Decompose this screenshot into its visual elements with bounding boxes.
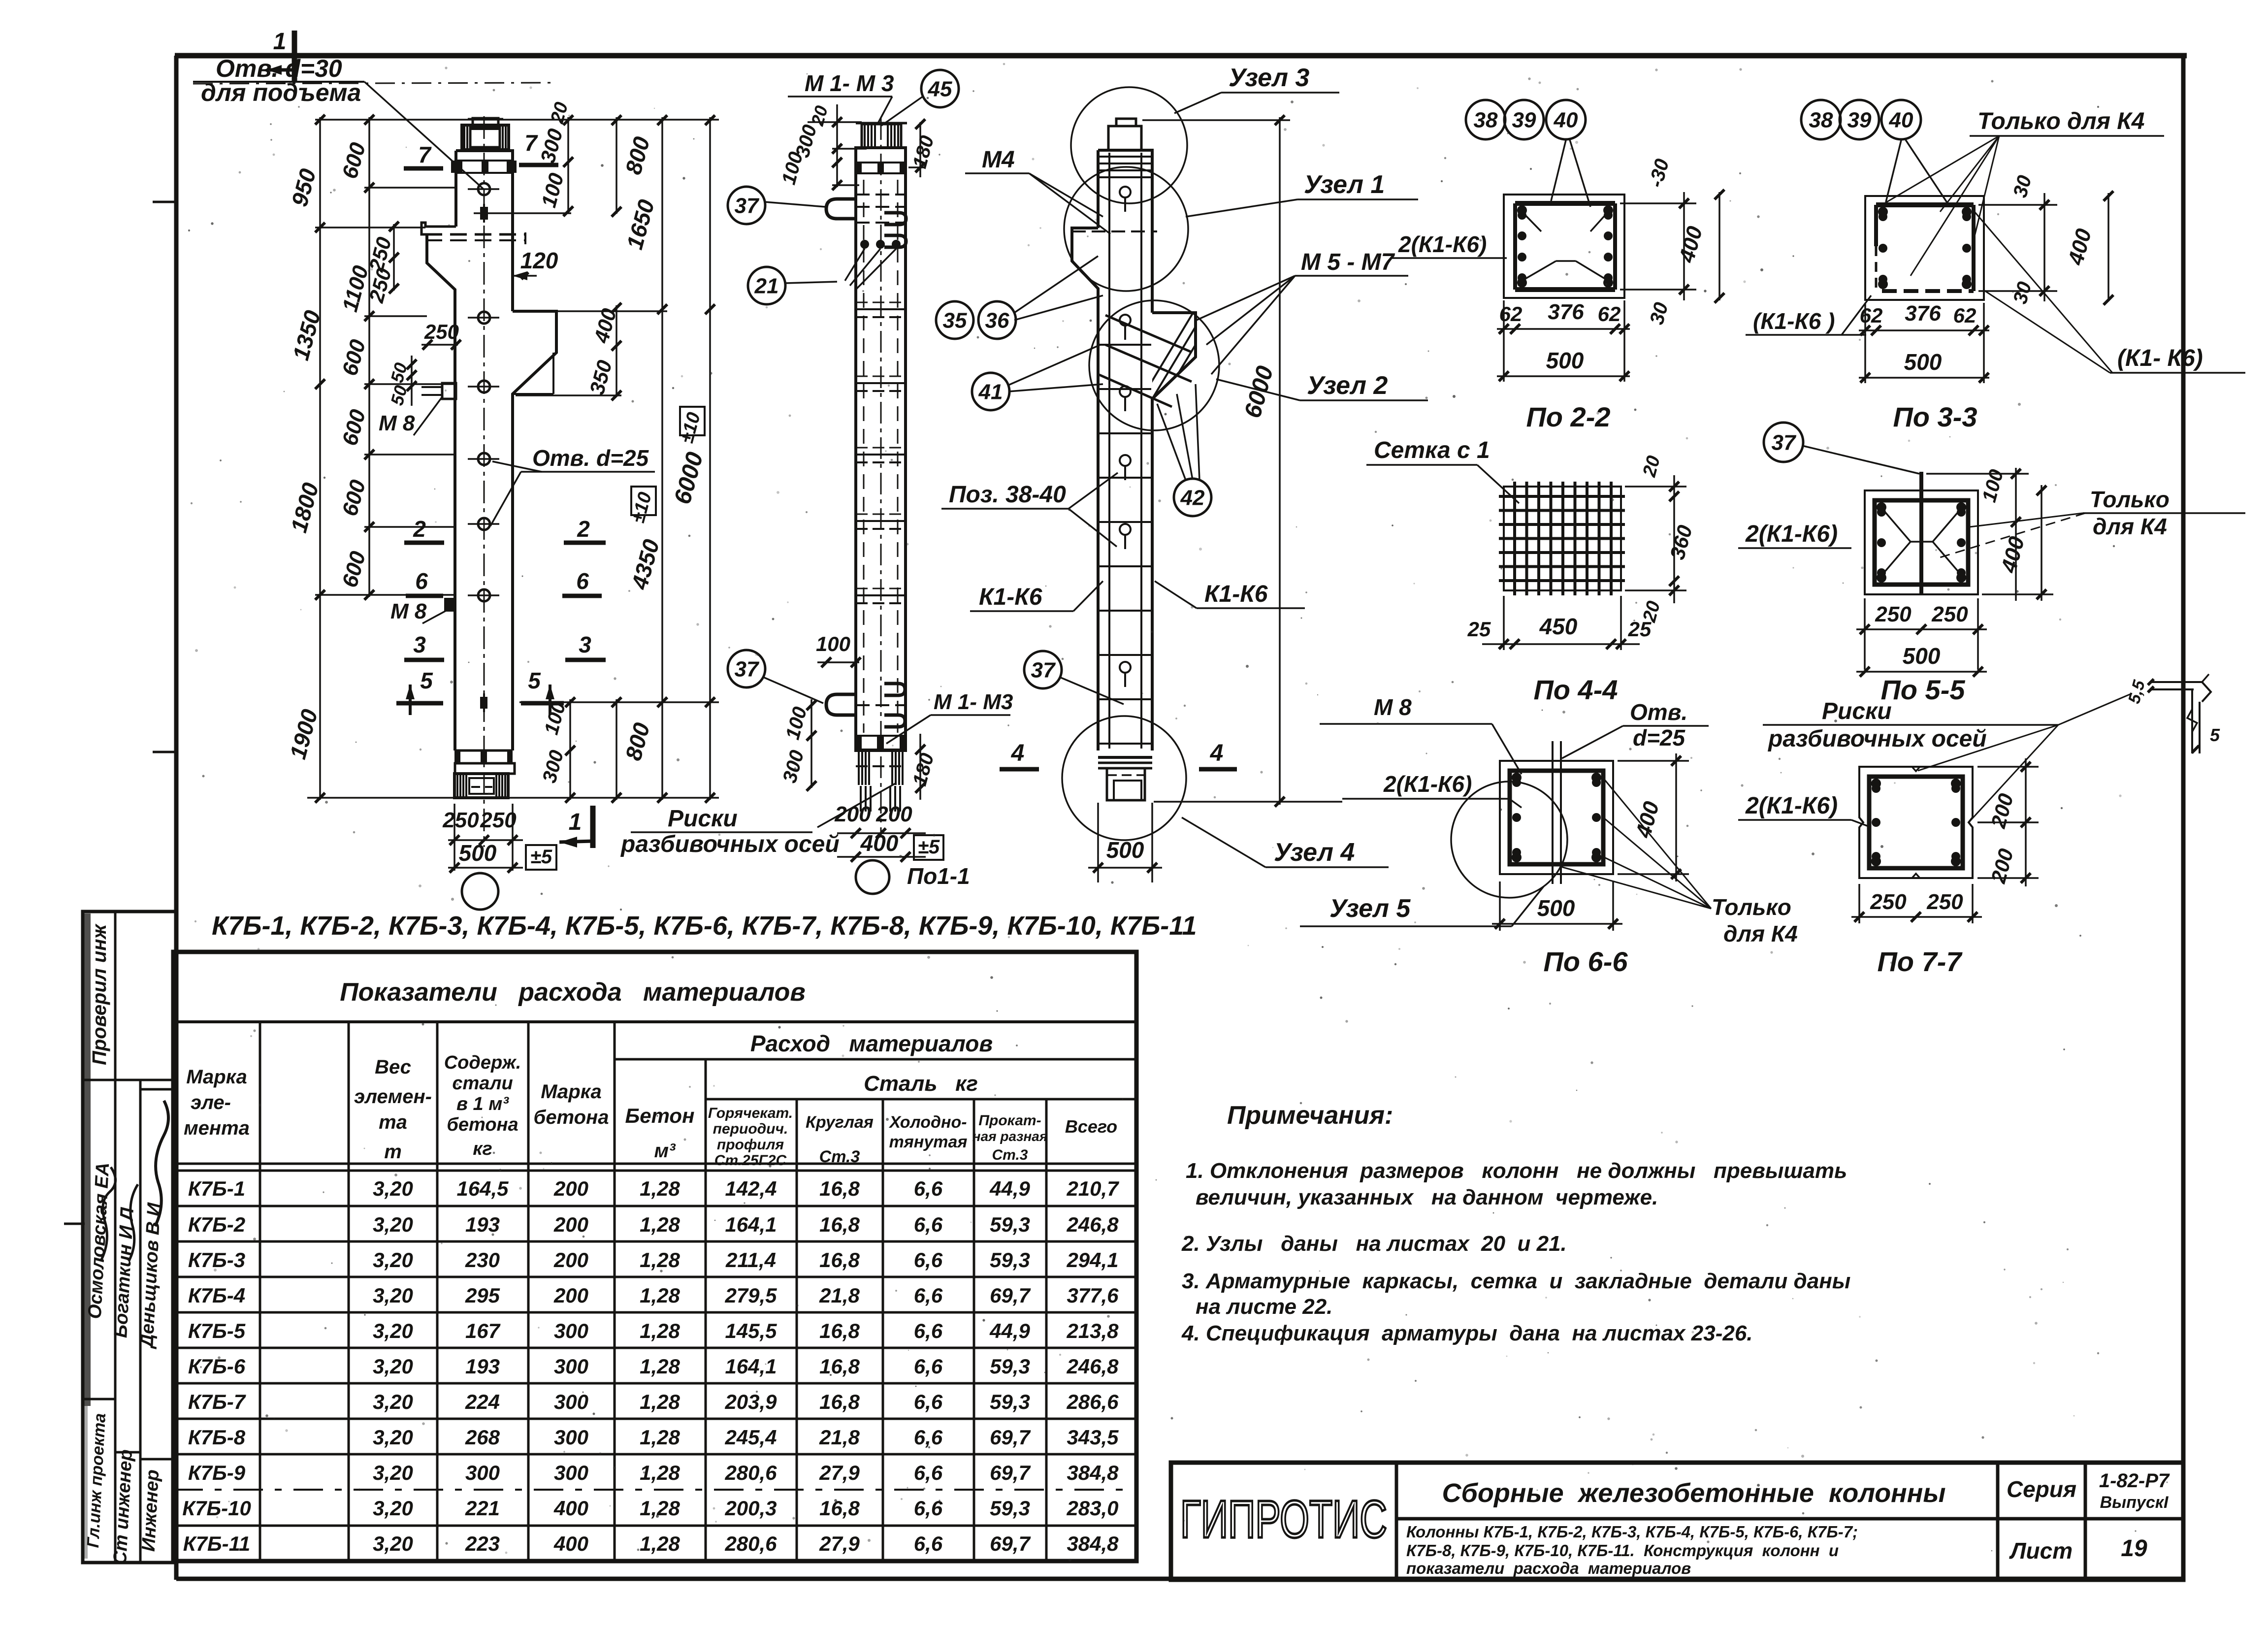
column view 1 top lifting-hole label [193,55,551,189]
column 1 right dim chains [516,100,715,803]
column 1 section marks left [396,516,444,715]
Po 4-4 dims [1467,454,1697,705]
Po 5-5 circled 37 [1764,423,1803,462]
column 3 outline [1072,119,1273,800]
svg-text:145,5: 145,5 [725,1319,777,1342]
svg-text:Серия: Серия [2007,1476,2076,1502]
svg-text:М 1- М 3: М 1- М 3 [805,70,894,96]
svg-text:1,28: 1,28 [640,1461,680,1484]
svg-text:500: 500 [1106,837,1144,863]
svg-text:1,28: 1,28 [640,1319,680,1342]
circled 37 (col2 top) [728,187,765,224]
circled 37 (col2 bottom) [728,650,765,687]
svg-text:250: 250 [1875,602,1912,626]
svg-text:167: 167 [465,1319,501,1342]
svg-text:250: 250 [1926,890,1963,914]
svg-text:300: 300 [554,1355,588,1378]
svg-text:44,9: 44,9 [989,1319,1030,1342]
svg-text:2. Узлы даны на листах 20: 2. Узлы даны на листах 20 и 21. [1181,1232,1567,1256]
svg-text:27,9: 27,9 [819,1532,860,1555]
svg-text:Колонны К7Б-1, К7Б-2, К7Б-3, К: Колонны К7Б-1, К7Б-2, К7Б-3, К7Б-4, К7Б-… [1406,1523,1858,1541]
svg-text:300: 300 [554,1319,588,1342]
svg-text:21,8: 21,8 [819,1426,860,1449]
svg-text:69,7: 69,7 [990,1532,1031,1555]
svg-text:37: 37 [735,657,760,681]
svg-text:36: 36 [985,308,1009,332]
svg-text:4: 4 [1011,740,1025,766]
svg-text:К1-К6: К1-К6 [1204,581,1268,607]
svg-text:6,6: 6,6 [914,1213,943,1236]
signature sidebar box [83,912,176,1563]
Po 5-5 labels dims [1738,467,2245,705]
section mark 1 (top) [267,29,294,83]
svg-text:200,3: 200,3 [724,1497,777,1520]
svg-text:250: 250 [480,808,517,832]
svg-text:5: 5 [2210,725,2220,745]
svg-text:500: 500 [1903,643,1941,669]
svg-text:38: 38 [1809,108,1833,132]
svg-text:К7Б-8, К7Б-9, К7Б-10, К7Б-11.: К7Б-8, К7Б-9, К7Б-10, К7Б-11. Конструкци… [1406,1541,1839,1560]
svg-text:3,20: 3,20 [373,1284,413,1307]
svg-text:39: 39 [1512,108,1536,132]
section Po 2-2 [1504,195,1624,298]
svg-text:59,3: 59,3 [990,1497,1030,1520]
svg-text:Отв. d=25: Отв. d=25 [532,445,649,471]
table header grid [173,1022,1136,1561]
column 2 outline [826,118,907,837]
svg-text:К7Б-3: К7Б-3 [188,1248,245,1272]
svg-text:283,0: 283,0 [1066,1497,1118,1520]
svg-text:разбивочных осей: разбивочных осей [1767,726,1987,752]
section Po 4-4 mesh [1499,482,1625,595]
svg-text:1,28: 1,28 [640,1177,680,1200]
svg-text:К7Б-8: К7Б-8 [188,1426,246,1449]
svg-text:500: 500 [459,840,497,866]
column 1 extension lines [307,120,719,798]
svg-text:Показатели расхода материа: Показатели расхода материалов [340,978,806,1007]
svg-text:59,3: 59,3 [990,1213,1030,1236]
svg-text:Сталь кг: Сталь кг [864,1072,978,1096]
svg-text:376: 376 [1905,301,1941,326]
svg-text:280,6: 280,6 [724,1532,777,1555]
svg-text:профиля: профиля [717,1137,784,1153]
svg-text:3. Арматурные каркасы, сетка: 3. Арматурные каркасы, сетка и закладные… [1182,1269,1850,1293]
section Po 5-5 [1865,472,1978,594]
svg-text:3,20: 3,20 [373,1355,413,1378]
svg-text:величин, указанных на данном: величин, указанных на данном чертеже. [1196,1185,1658,1209]
svg-text:6,6: 6,6 [914,1355,943,1378]
column 1 outline [421,116,556,847]
svg-text:62: 62 [1598,302,1621,326]
svg-text:203,9: 203,9 [724,1390,777,1413]
title block [1171,1463,2183,1580]
svg-text:6,6: 6,6 [914,1426,943,1449]
svg-text:d=25: d=25 [1633,725,1686,750]
svg-text:К7Б-11: К7Б-11 [183,1532,251,1555]
svg-text:К7Б-7: К7Б-7 [188,1390,246,1413]
svg-text:3,20: 3,20 [373,1213,413,1236]
svg-text:295: 295 [465,1284,500,1307]
svg-text:1. Отклонения размеров коло: 1. Отклонения размеров колонн не должны … [1186,1159,1847,1183]
svg-text:Проверил инж: Проверил инж [89,923,110,1065]
svg-text:По 5-5: По 5-5 [1881,674,1966,705]
circled 45 [921,70,959,107]
svg-text:280,6: 280,6 [724,1461,777,1484]
col3 6000 dim [1142,115,1342,807]
section 4 marks [1000,740,1237,769]
svg-text:213,8: 213,8 [1066,1319,1119,1342]
svg-text:По 4-4: По 4-4 [1534,674,1618,705]
svg-text:Только: Только [1712,894,1791,920]
svg-text:По 7-7: По 7-7 [1878,946,1963,977]
svg-text:±5: ±5 [918,836,940,858]
svg-text:19: 19 [2121,1535,2147,1562]
svg-text:По1-1: По1-1 [907,863,970,889]
svg-text:К7Б-2: К7Б-2 [188,1213,245,1236]
svg-text:Лист: Лист [2009,1538,2073,1564]
svg-text:223: 223 [465,1532,500,1555]
svg-text:Ст.3: Ст.3 [992,1147,1028,1163]
svg-text:7: 7 [418,142,432,167]
svg-text:384,8: 384,8 [1067,1461,1119,1484]
svg-text:на листе 22.: на листе 22. [1196,1295,1332,1319]
svg-text:193: 193 [465,1213,500,1236]
notes primechaniya [1181,1101,1850,1345]
svg-text:3,20: 3,20 [373,1319,413,1342]
svg-text:6,6: 6,6 [914,1177,943,1200]
svg-text:для К4: для К4 [2093,514,2167,539]
svg-text:Сборные железобетонные колон: Сборные железобетонные колонны [1442,1478,1945,1508]
svg-text:343,5: 343,5 [1067,1426,1119,1449]
svg-text:300: 300 [554,1461,588,1484]
Poz 38-40 label [941,473,1118,547]
svg-text:40: 40 [1554,108,1578,132]
svg-text:кг: кг [473,1139,492,1159]
svg-text:41: 41 [978,380,1003,404]
svg-text:384,8: 384,8 [1067,1532,1119,1555]
svg-text:400: 400 [860,830,899,856]
svg-text:3,20: 3,20 [373,1390,413,1413]
svg-text:По 3-3: По 3-3 [1893,401,1977,432]
svg-text:тянутая: тянутая [889,1133,968,1151]
svg-text:62: 62 [1499,302,1523,326]
svg-text:450: 450 [1539,614,1578,639]
svg-text:27,9: 27,9 [819,1461,860,1484]
section Po 7-7 [1859,767,1973,878]
svg-text:Вес: Вес [375,1056,411,1078]
svg-text:286,6: 286,6 [1066,1390,1119,1413]
Po 3-3 circled 38 39 40 [1801,100,1841,139]
svg-text:1,28: 1,28 [640,1248,680,1272]
Po 3-3 tolko dlya K4 [1879,108,2164,276]
svg-text:35: 35 [943,308,967,332]
svg-text:279,5: 279,5 [724,1284,777,1307]
svg-text:в 1 м³: в 1 м³ [456,1094,509,1114]
section Po 3-3 [1865,196,1984,300]
svg-text:2(К1-К6): 2(К1-К6) [1383,771,1472,797]
svg-text:500: 500 [1537,895,1575,921]
Po1-1 circle below col2 [856,860,970,894]
svg-text:59,3: 59,3 [990,1390,1030,1413]
svg-text:показатели расхода материало: показатели расхода материалов [1406,1559,1691,1577]
svg-text:246,8: 246,8 [1066,1355,1119,1378]
svg-text:Только для К4: Только для К4 [1977,108,2145,134]
svg-text:ная разная: ная разная [972,1129,1048,1144]
svg-text:250: 250 [1870,890,1907,914]
svg-text:59,3: 59,3 [990,1355,1030,1378]
svg-text:500: 500 [1546,348,1584,373]
svg-text:4. Спецификация арматуры дан: 4. Спецификация арматуры дана на листах … [1181,1321,1753,1345]
table data rows [173,1177,1136,1555]
svg-text:1,28: 1,28 [640,1532,680,1555]
svg-text:К1-К6: К1-К6 [979,584,1042,610]
svg-text:210,7: 210,7 [1066,1177,1119,1200]
svg-text:120: 120 [520,248,558,273]
fold marks [64,202,178,1224]
svg-text:6,6: 6,6 [914,1319,943,1342]
svg-text:1,28: 1,28 [640,1355,680,1378]
svg-text:эле-: эле- [191,1092,231,1113]
svg-text:5: 5 [420,668,433,693]
svg-text:стали: стали [452,1073,513,1094]
svg-text:224: 224 [465,1390,500,1413]
svg-text:193: 193 [465,1355,500,1378]
svg-text:±5: ±5 [530,846,552,868]
svg-text:300: 300 [465,1461,500,1484]
svg-text:300: 300 [554,1390,588,1413]
plus-minus 10 boxes [628,407,705,525]
col2 top dims 20/300/100 + 180 [778,103,939,190]
Po 2-2 circled 38 39 40 [1466,100,1505,139]
svg-text:100: 100 [816,632,850,655]
Otv d=25 label [490,445,655,526]
svg-text:1: 1 [273,29,287,55]
M1-M3 label bottom [817,690,1013,827]
svg-text:К7Б-4: К7Б-4 [188,1284,245,1307]
svg-text:62: 62 [1953,304,1976,327]
svg-text:Узел 4: Узел 4 [1274,838,1355,867]
svg-text:500: 500 [1904,349,1942,375]
sidebar rotated texts [84,923,165,1565]
svg-text:т: т [384,1141,402,1163]
svg-text:16,8: 16,8 [819,1213,860,1236]
svg-text:6: 6 [415,568,428,594]
svg-text:6,6: 6,6 [914,1248,943,1272]
M4 label [965,147,1110,234]
svg-text:37: 37 [1031,658,1056,682]
svg-text:4: 4 [1210,740,1224,766]
svg-text:3,20: 3,20 [373,1177,413,1200]
svg-text:300: 300 [554,1426,588,1449]
svg-text:для К4: для К4 [1723,921,1798,946]
svg-text:(К1- К6): (К1- К6) [2117,345,2203,371]
circled 42 [1174,479,1211,516]
svg-text:Только: Только [2090,487,2170,512]
svg-text:По 6-6: По 6-6 [1544,946,1628,977]
svg-text:К7Б-10: К7Б-10 [182,1497,251,1520]
svg-text:16,8: 16,8 [819,1390,860,1413]
svg-text:3: 3 [413,632,426,657]
svg-text:250: 250 [442,808,479,832]
uzel callout circles [1062,87,1219,840]
svg-text:200: 200 [553,1177,588,1200]
svg-text:6,6: 6,6 [914,1461,943,1484]
svg-text:Ст.25Г2С: Ст.25Г2С [714,1152,787,1169]
svg-text:62: 62 [1860,304,1883,327]
svg-text:бетона: бетона [534,1107,609,1128]
svg-text:Бетон: Бетон [625,1104,695,1127]
column view 2 label M1-M3 top [788,70,894,124]
svg-text:М 8: М 8 [379,411,415,435]
svg-text:ГИПРОТИС: ГИПРОТИС [1180,1489,1387,1549]
svg-text:Расход материалов: Расход материалов [750,1031,993,1056]
svg-text:44,9: 44,9 [989,1177,1030,1200]
svg-text:37: 37 [735,194,760,218]
svg-text:Всего: Всего [1065,1116,1117,1137]
svg-text:3,20: 3,20 [373,1426,413,1449]
svg-text:К7Б-9: К7Б-9 [188,1461,246,1484]
svg-text:Прокат-: Прокат- [978,1112,1041,1129]
svg-text:142,4: 142,4 [725,1177,777,1200]
svg-text:К7Б-5: К7Б-5 [188,1319,246,1342]
Po 7-7 labels dims [1738,758,2039,977]
svg-text:1,28: 1,28 [640,1426,680,1449]
svg-text:268: 268 [465,1426,500,1449]
svg-text:М4: М4 [982,147,1015,173]
svg-text:1,28: 1,28 [640,1284,680,1307]
svg-text:К7Б-1: К7Б-1 [188,1177,245,1200]
svg-text:164,1: 164,1 [725,1213,777,1236]
title text [1406,1470,2170,1577]
svg-text:1: 1 [569,809,582,835]
svg-text:(К1-К6 ): (К1-К6 ) [1753,308,1835,334]
riski razbivochnyh osey label (col1) [620,806,840,857]
section mark 1 (bottom) [559,806,593,848]
svg-text:45: 45 [928,77,952,101]
svg-text:245,4: 245,4 [724,1426,777,1449]
svg-text:3,20: 3,20 [373,1497,413,1520]
120 dim [513,248,558,280]
svg-text:2(К1-К6): 2(К1-К6) [1745,793,1838,819]
svg-text:164,5: 164,5 [456,1177,509,1200]
column 1 left dimension chain A [285,115,325,803]
svg-text:246,8: 246,8 [1066,1213,1119,1236]
svg-text:16,8: 16,8 [819,1177,860,1200]
svg-text:М 8: М 8 [390,599,427,623]
svg-text:К7Б-6: К7Б-6 [188,1355,246,1378]
svg-text:Горячекат.: Горячекат. [708,1105,793,1121]
svg-text:200: 200 [553,1248,588,1272]
svg-text:2: 2 [577,516,590,542]
column 1 top section marks 7 [404,130,558,168]
column 1 ledge dims 250/250 and 50/50 [364,222,461,407]
svg-text:400: 400 [553,1497,588,1520]
svg-text:Отв.: Отв. [1630,699,1687,725]
svg-text:м³: м³ [654,1140,677,1162]
svg-text:5: 5 [528,668,541,693]
svg-text:Риски: Риски [1822,698,1892,724]
svg-text:2(К1-К6): 2(К1-К6) [1745,521,1838,547]
svg-text:69,7: 69,7 [990,1426,1031,1449]
svg-text:250: 250 [424,320,459,343]
Po 2-2 labels and dims [1392,157,1724,432]
svg-text:37: 37 [1772,430,1797,455]
svg-text:разбивочных осей: разбивочных осей [620,831,840,857]
svg-text:16,8: 16,8 [819,1248,860,1272]
sidebar signatures [101,1101,168,1261]
svg-text:Инженер: Инженер [138,1469,163,1552]
svg-text:Узел 5: Узел 5 [1329,894,1411,923]
column 1 holes and studs [421,183,571,712]
materials table outer box and title [173,952,1136,1561]
Po circle below col1 [462,873,498,910]
svg-text:7: 7 [524,130,538,156]
svg-text:М 8: М 8 [1374,694,1412,720]
svg-text:Узел 3: Узел 3 [1229,64,1309,92]
Po 3-3 dims [1746,173,2245,432]
uzel labels [1174,64,1544,926]
svg-text:6,6: 6,6 [914,1390,943,1413]
svg-text:25: 25 [1628,618,1652,641]
svg-text:1,28: 1,28 [640,1497,680,1520]
svg-text:Холодно-: Холодно- [888,1113,967,1132]
corner break detail [2125,674,2220,753]
svg-text:377,6: 377,6 [1067,1284,1119,1307]
svg-text:По 2-2: По 2-2 [1526,401,1611,432]
svg-text:200: 200 [553,1284,588,1307]
svg-text:376: 376 [1548,300,1584,324]
column 1 section marks right [521,516,606,715]
svg-text:Марка: Марка [541,1081,602,1103]
svg-text:6,6: 6,6 [914,1532,943,1555]
svg-text:16,8: 16,8 [819,1319,860,1342]
svg-text:1,28: 1,28 [640,1213,680,1236]
svg-text:Содерж.: Содерж. [444,1052,521,1073]
M5-M7 label [1197,249,1408,374]
svg-text:6,6: 6,6 [914,1284,943,1307]
svg-text:16,8: 16,8 [819,1497,860,1520]
circled 41 [972,373,1009,410]
svg-text:69,7: 69,7 [990,1284,1031,1307]
svg-text:Поз. 38-40: Поз. 38-40 [949,482,1066,508]
svg-text:Примечания:: Примечания: [1227,1101,1393,1130]
svg-text:К7Б-1, К7Б-2, К7Б-3, К7Б-4, К7: К7Б-1, К7Б-2, К7Б-3, К7Б-4, К7Б-5, К7Б-6… [212,911,1197,941]
svg-text:3: 3 [579,632,591,657]
svg-text:2(К1-К6): 2(К1-К6) [1398,231,1487,257]
svg-text:40: 40 [1889,108,1913,132]
svg-text:200: 200 [875,802,912,826]
svg-text:Марка: Марка [186,1066,247,1088]
svg-text:Узел 2: Узел 2 [1307,371,1388,400]
column 1 left dimension chain B [338,115,374,600]
svg-text:Круглая: Круглая [806,1113,874,1132]
svg-text:Сетка с 1: Сетка с 1 [1374,437,1490,463]
column 1 M8 labels [379,397,446,623]
svg-text:Ст.3: Ст.3 [819,1147,860,1166]
circled 21 [748,267,785,304]
col3 bottom 500 dim [1088,803,1162,882]
svg-text:Узел 1: Узел 1 [1304,170,1385,199]
svg-text:мента: мента [184,1117,250,1139]
svg-text:та: та [379,1111,407,1133]
svg-text:42: 42 [1180,486,1205,510]
svg-text:25: 25 [1467,618,1491,641]
svg-text:ВыпускI: ВыпускI [2100,1493,2169,1512]
svg-text:164,1: 164,1 [725,1355,777,1378]
svg-text:периодич.: периодич. [713,1121,788,1137]
svg-text:16,8: 16,8 [819,1355,860,1378]
Riski razbivochnyh osey label [1763,693,2132,821]
